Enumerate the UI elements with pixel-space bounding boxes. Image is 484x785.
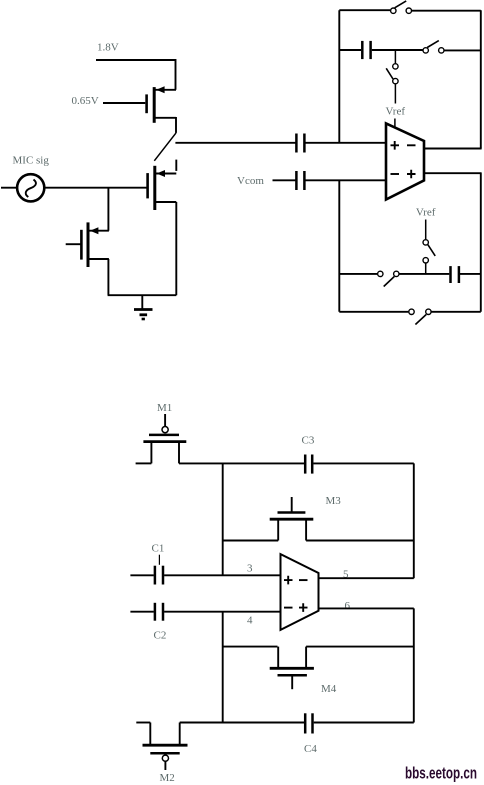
svg-text:Vref: Vref (386, 105, 406, 117)
capacitor C2 (130, 603, 280, 621)
transistor M4 (223, 647, 414, 690)
wire Vcom lead (273, 179, 296, 181)
wire bottom rail + switch S7 (339, 309, 481, 324)
wire left vertical (top box) (338, 10, 340, 143)
wire right rail upper (413, 463, 415, 578)
capacitor C3 (305, 455, 414, 474)
capacitor Cin2 (Vcom input) (296, 171, 386, 190)
MIC source (1, 155, 147, 202)
svg-text:M3: M3 (326, 495, 342, 507)
svg-text:C4: C4 (304, 743, 317, 755)
wire right vertical (top box) (480, 10, 482, 148)
capacitor Cf1 + switch S3 (cap row) (339, 41, 481, 60)
svg-text:3: 3 (247, 563, 253, 575)
wire U1 output bottom (424, 172, 482, 174)
op-amp U2 (281, 554, 319, 630)
svg-text:C3: C3 (302, 435, 315, 447)
svg-text:1.8V: 1.8V (97, 42, 119, 54)
transistor M2 (136, 723, 187, 771)
transistor M1 (136, 414, 187, 463)
svg-text:4: 4 (247, 614, 253, 626)
wire 0.65V gate lead (103, 102, 145, 104)
wire M2 drain to C4 row (180, 722, 305, 724)
switch S1 (between Q1 and Q2) (154, 117, 176, 171)
transistor M3 (223, 497, 414, 541)
transistor Q2 (input device) (148, 166, 177, 295)
svg-text:M4: M4 (321, 683, 337, 695)
svg-text:M2: M2 (160, 772, 175, 784)
switch S5 (vertical, Vref bottom) (423, 220, 435, 274)
svg-text:0.65V: 0.65V (72, 95, 99, 107)
wire top rail + switch S2 (339, 1, 481, 14)
wire U2 output 6 (318, 607, 414, 609)
svg-text:M1: M1 (157, 402, 172, 414)
wire right rail lower (413, 608, 415, 722)
svg-text:Vref: Vref (416, 206, 436, 218)
wire bottom rail (108, 294, 177, 296)
transistor Q1 (PMOS cascode top) (147, 86, 176, 123)
svg-text:C1: C1 (152, 543, 165, 555)
wire U1 output top (424, 148, 482, 150)
capacitor Cin1 (top input) (296, 134, 386, 153)
wire left vertical (bottom box) (338, 180, 340, 311)
svg-text:C2: C2 (154, 630, 167, 642)
transistor Q3 (bias device, diode left) (66, 222, 109, 267)
op-amp U1 (386, 123, 424, 199)
wire U2 output 5 (318, 577, 414, 579)
wire M1 drain to C3 row (179, 462, 304, 464)
wire left rail upper (222, 463, 224, 575)
svg-text:6: 6 (345, 600, 351, 612)
svg-text:MIC sig: MIC sig (13, 155, 50, 167)
switch S4 (vertical, to Vref top) (386, 50, 398, 104)
wire Q3 drain up to MIC line (107, 188, 109, 231)
wire left rail lower (222, 612, 224, 723)
tick above C1 cap (158, 555, 160, 565)
svg-text:Vcom: Vcom (237, 175, 264, 187)
svg-text:bbs.eetop.cn: bbs.eetop.cn (405, 764, 477, 783)
ground (134, 295, 153, 319)
wire right vertical (bottom box) (480, 173, 482, 312)
capacitor C4 (305, 713, 414, 733)
wire 1.8V rail (96, 60, 176, 90)
capacitor Cf2 + switch S6 (cap row bottom) (339, 266, 481, 286)
wire Q3 source down to rail (107, 259, 109, 295)
wire Vref stub into U1 top (394, 119, 396, 129)
capacitor C1 (130, 566, 280, 585)
wire switch output to C5 (175, 142, 295, 144)
